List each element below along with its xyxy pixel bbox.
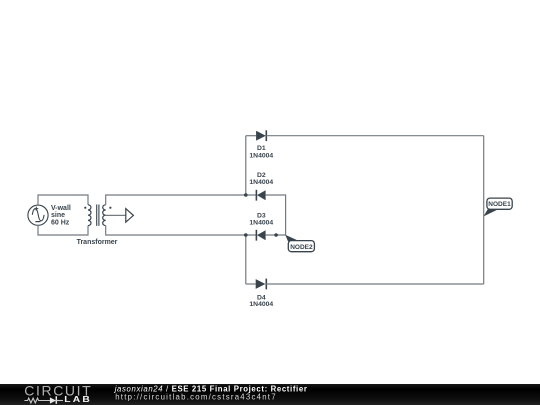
svg-text:LAB: LAB — [64, 395, 92, 404]
wire D1 anode — [246, 135, 256, 137]
wire secondary top — [106, 195, 257, 205]
footer bar — [0, 384, 540, 405]
transformer T1 — [84, 205, 111, 226]
wire D3 anode to corner — [266, 234, 286, 236]
label D1 1N4004 — [249, 145, 273, 159]
node NODE2 — [285, 235, 314, 252]
diode D2 — [256, 190, 265, 201]
CircuitLab logo diode — [50, 396, 63, 404]
svg-text:1N4004: 1N4004 — [249, 219, 273, 226]
wire D4 anode — [246, 283, 256, 285]
svg-text:sine: sine — [51, 212, 65, 219]
wire D2 anode to corner — [266, 195, 286, 235]
diode D4 — [256, 279, 267, 290]
label D4 1N4004 — [249, 295, 273, 309]
svg-text:1N4004: 1N4004 — [249, 179, 273, 186]
node NODE1 — [484, 198, 513, 216]
svg-text:NODE2: NODE2 — [290, 244, 313, 251]
junction left rail top wire — [244, 193, 248, 197]
diode D3 — [256, 230, 265, 241]
svg-text:D1: D1 — [257, 145, 266, 152]
diode D1 — [256, 130, 266, 141]
svg-text:1N4004: 1N4004 — [249, 301, 273, 308]
wire right rail — [483, 136, 485, 284]
svg-text:NODE1: NODE1 — [488, 201, 511, 208]
label D2 1N4004 — [249, 172, 273, 186]
junction left rail bottom wire — [244, 233, 248, 237]
wire left rail lower — [245, 235, 247, 284]
voltage source V1 — [28, 205, 48, 225]
wire secondary bottom — [106, 226, 257, 235]
wire source bottom to primary — [38, 225, 88, 235]
label D3 1N4004 — [249, 212, 273, 226]
junction D3 output — [274, 233, 278, 237]
wire center tap — [106, 214, 126, 216]
wire D4 cathode to right rail — [266, 283, 483, 285]
svg-text:V-wall: V-wall — [51, 205, 71, 212]
wire source top to primary — [38, 195, 88, 205]
svg-text:60 Hz: 60 Hz — [51, 220, 70, 227]
center tap arrow — [126, 209, 134, 223]
wire D1 cathode to right rail — [266, 135, 483, 137]
svg-text:1N4004: 1N4004 — [249, 152, 273, 159]
wire left rail upper — [245, 136, 247, 195]
svg-text:Transformer: Transformer — [77, 239, 118, 246]
value label V-wall sine 60 Hz — [51, 205, 71, 227]
svg-text:http://circuitlab.com/cstsra43: http://circuitlab.com/cstsra43c4nt7 — [115, 393, 277, 402]
CircuitLab logo resistor zigzag — [24, 398, 50, 403]
